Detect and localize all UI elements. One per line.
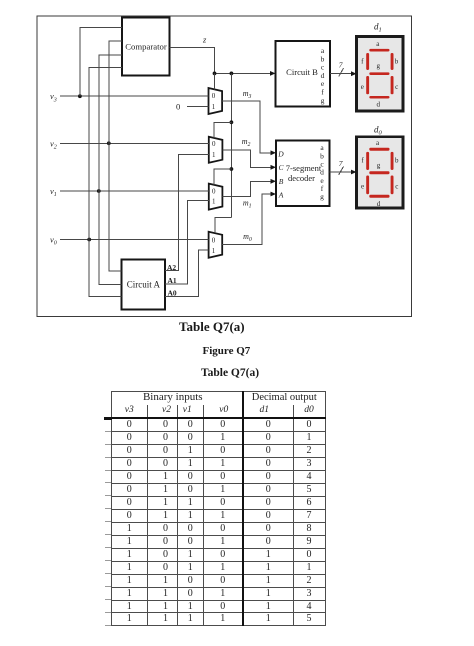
svg-text:A: A [278, 190, 284, 199]
svg-text:g: g [377, 62, 381, 70]
svg-text:0: 0 [176, 101, 180, 111]
svg-text:Comparator: Comparator [125, 42, 167, 52]
svg-text:7: 7 [339, 61, 343, 70]
svg-text:e: e [361, 83, 364, 91]
wire z select to mux M0 [215, 218, 232, 234]
svg-text:z: z [202, 35, 207, 45]
svg-text:1: 1 [212, 151, 216, 159]
wire m0 to decoder A [222, 192, 276, 245]
svg-text:m0: m0 [243, 232, 252, 243]
label m3 [243, 89, 252, 100]
wire m2 to decoder C [222, 150, 276, 170]
wire z select to mux M2 [214, 122, 231, 138]
wire A1 to mux M1 [165, 201, 209, 284]
wire bus decoder to display d0 [330, 167, 357, 175]
wire bus Circuit B to display d1 [330, 68, 357, 76]
svg-text:v3: v3 [50, 91, 57, 103]
truth table [111, 391, 326, 626]
svg-text:7-segment: 7-segment [286, 163, 322, 173]
wire z select trunk [230, 73, 234, 217]
label bus width 7 (d0) [339, 159, 343, 168]
wire m3 to decoder D [222, 101, 276, 155]
svg-text:v0: v0 [50, 235, 57, 247]
svg-text:m1: m1 [243, 199, 252, 210]
mux M2 [209, 137, 223, 163]
svg-text:0: 0 [212, 140, 216, 148]
svg-text:c: c [395, 83, 398, 91]
wire v1 line [60, 189, 209, 193]
wire v3 to comparator [80, 28, 122, 97]
label d0 [374, 125, 383, 137]
wire v3 line [60, 94, 209, 98]
svg-text:A1: A1 [168, 276, 177, 285]
svg-text:decoder: decoder [288, 173, 315, 183]
wire v0 to comparator and Circuit A [89, 68, 122, 297]
svg-text:v2: v2 [50, 138, 57, 150]
label A2 [167, 263, 176, 272]
display DS2 (d0) [357, 137, 404, 208]
wire A0 to mux M0 [165, 250, 209, 296]
Circuit A U4 [122, 259, 165, 309]
label m2 [242, 137, 251, 148]
wire z select to mux M1 [214, 169, 231, 185]
caption: Table Q7(a) second [201, 367, 259, 379]
svg-text:0: 0 [212, 92, 216, 100]
node v2 [50, 138, 57, 150]
label A1 [168, 276, 177, 285]
svg-text:1: 1 [212, 197, 216, 205]
wire z select to mux M3 [214, 73, 216, 89]
wire v0 line [60, 238, 209, 242]
svg-text:Circuit B: Circuit B [286, 67, 318, 77]
svg-text:g: g [377, 162, 381, 170]
label A0 [168, 288, 177, 297]
node v1 [50, 186, 57, 198]
wire A2 to mux M2 [165, 155, 209, 271]
svg-text:B: B [279, 177, 284, 186]
svg-text:b: b [395, 58, 399, 66]
label bus width 7 (d1) [339, 61, 343, 70]
node constant 0 [176, 101, 209, 111]
svg-text:m2: m2 [242, 137, 251, 148]
svg-text:m3: m3 [243, 89, 252, 100]
svg-text:d: d [377, 101, 381, 109]
svg-text:v1: v1 [50, 186, 57, 198]
mux M3 [209, 88, 223, 114]
node z [202, 35, 207, 45]
display DS1 (d1) [357, 37, 404, 112]
svg-text:1: 1 [212, 247, 216, 255]
label m1 [243, 199, 252, 210]
svg-text:g: g [320, 192, 324, 201]
comparator U1 [122, 18, 169, 76]
svg-text:Circuit A: Circuit A [127, 279, 161, 289]
svg-text:g: g [321, 96, 325, 105]
svg-text:e: e [361, 183, 364, 191]
wire z to Circuit B [213, 71, 276, 76]
node v0 [50, 235, 57, 247]
svg-text:A0: A0 [168, 288, 177, 297]
7-segment decoder U3 [276, 141, 330, 207]
svg-text:A2: A2 [167, 263, 176, 272]
caption: Figure Q7 [203, 345, 251, 357]
frame: schematic border [37, 16, 412, 317]
svg-text:d0: d0 [374, 125, 383, 137]
wire v1 to comparator and Circuit A [99, 55, 122, 285]
wire m1 to decoder B [222, 179, 276, 197]
svg-text:7: 7 [339, 159, 343, 168]
wire z from comparator [169, 47, 214, 73]
Circuit B U2 [276, 41, 331, 107]
svg-text:0: 0 [212, 187, 216, 195]
label d1 [374, 22, 382, 34]
svg-text:d: d [377, 200, 381, 208]
svg-text:d1: d1 [374, 22, 382, 34]
wire v2 to comparator and Circuit A [109, 41, 122, 271]
svg-text:D: D [277, 149, 284, 158]
mux M0 [209, 232, 223, 258]
svg-text:1: 1 [212, 103, 216, 111]
svg-text:c: c [395, 183, 398, 191]
caption: Table Q7(a) top [179, 319, 245, 335]
node v3 [50, 91, 57, 103]
svg-text:0: 0 [212, 237, 216, 245]
wire v2 line [60, 141, 209, 145]
label m0 [243, 232, 252, 243]
svg-text:b: b [395, 157, 399, 165]
mux M1 [209, 184, 223, 210]
